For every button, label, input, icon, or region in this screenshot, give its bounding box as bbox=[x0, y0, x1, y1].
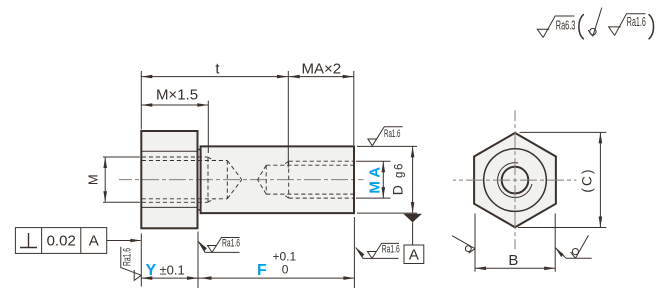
dimension M line bbox=[104, 157, 106, 202]
front view: pilot hole circle bbox=[502, 167, 529, 194]
svg-text:F: F bbox=[257, 262, 267, 279]
dimension M×1.5 line bbox=[141, 104, 208, 106]
top-right note: Ra6.3 symbol bbox=[537, 16, 574, 37]
surface symbol Ra1.6 leader at cylinder left face bbox=[198, 238, 239, 253]
svg-text:Ra1.6: Ra1.6 bbox=[627, 14, 646, 29]
dimension (C) line bbox=[599, 132, 601, 227]
pilot hole M end vertical hidden line bbox=[226, 161, 228, 199]
perpendicularity symbol bbox=[20, 233, 37, 248]
surface symbol Ra1.6 above cylinder right bbox=[368, 127, 403, 146]
hidden thread MA major diameter lines bbox=[289, 160, 354, 162]
bottom extension line: hex left face bbox=[140, 234, 142, 287]
surface symbol Ra1.6 rotated at hex left face bottom bbox=[121, 247, 141, 281]
top-right note: circle-check symbol bbox=[588, 8, 602, 37]
svg-text:A: A bbox=[89, 233, 99, 250]
dimension Y line bbox=[141, 277, 198, 279]
pilot hole MA end vertical hidden line bbox=[265, 165, 267, 194]
text: ) top note bbox=[649, 14, 654, 39]
svg-text:MA: MA bbox=[367, 163, 384, 193]
hidden thread MA minor diameter lines bbox=[266, 164, 354, 166]
svg-text:MA×2: MA×2 bbox=[301, 61, 341, 78]
hidden thread M major diameter lines bbox=[142, 157, 354, 202]
drill cone MA bbox=[258, 165, 267, 179]
svg-text:0.02: 0.02 bbox=[47, 233, 76, 250]
surface symbol Ra1.6 leader at right face bottom bbox=[356, 243, 399, 258]
extension lines: (C) bbox=[518, 132, 606, 227]
side view: cylinder body fill bbox=[201, 146, 354, 213]
svg-text:Ra6.3: Ra6.3 bbox=[556, 17, 576, 32]
bottom extension line: hex right face bbox=[197, 232, 199, 289]
svg-text:Ra1.6: Ra1.6 bbox=[222, 237, 240, 249]
dimension D line bbox=[412, 146, 414, 213]
FCF leader arrow bbox=[107, 240, 141, 242]
top-right note: Ra1.6 symbol bbox=[609, 14, 646, 36]
feature control frame (perpendicularity) bbox=[15, 228, 106, 254]
extension line: right face (top) bbox=[353, 71, 355, 145]
svg-text:B: B bbox=[508, 252, 518, 269]
thread M runout slants bbox=[207, 157, 214, 161]
dimension F line bbox=[198, 277, 354, 279]
front view: vertical centerline bbox=[514, 110, 516, 249]
front view: horizontal centerline bbox=[453, 179, 577, 181]
neck step edges bbox=[198, 150, 201, 210]
svg-text:(C): (C) bbox=[579, 167, 594, 192]
extension line: thread MA depth bbox=[287, 71, 289, 168]
front view: chamfer circle bbox=[484, 149, 547, 212]
side view: neck fill bbox=[198, 150, 201, 210]
thread MA end vertical hidden line bbox=[288, 162, 290, 198]
svg-text:Ra1.6: Ra1.6 bbox=[121, 248, 133, 266]
dimension MA×2 line bbox=[289, 76, 354, 78]
svg-text:Ra1.6: Ra1.6 bbox=[382, 243, 400, 255]
front view: thread major 3/4 arc bbox=[498, 163, 532, 198]
surface symbol circle-check with leader at hexagon lower-right bbox=[555, 235, 592, 258]
extension line: thread M depth bbox=[207, 101, 209, 154]
hex face edge lines (side view) bbox=[141, 150, 197, 152]
extension lines: D dia (right) bbox=[357, 146, 417, 213]
svg-text:M: M bbox=[86, 174, 101, 185]
svg-text:A: A bbox=[409, 247, 419, 264]
dimension B line bbox=[475, 267, 555, 269]
thread M end vertical hidden line bbox=[207, 158, 209, 203]
svg-text:±0.1: ±0.1 bbox=[160, 262, 185, 277]
hex head outline (side view) bbox=[141, 131, 197, 228]
svg-text:Y: Y bbox=[146, 262, 157, 279]
extension lines: MA thread dia (right) bbox=[356, 161, 391, 198]
svg-text:Ra1.6: Ra1.6 bbox=[384, 128, 401, 140]
datum A feature triangle bbox=[403, 214, 422, 223]
datum A box bbox=[404, 245, 424, 264]
bottom extension line: cylinder right face bbox=[353, 217, 355, 288]
dimension t line bbox=[141, 76, 288, 78]
svg-text:0: 0 bbox=[282, 263, 289, 277]
front view: hexagon bbox=[474, 133, 556, 227]
svg-text:M×1.5: M×1.5 bbox=[156, 87, 198, 104]
cylinder outline (side view) bbox=[201, 146, 354, 213]
hidden thread M minor diameter lines bbox=[142, 160, 228, 162]
side view: hex head body fill bbox=[141, 131, 197, 228]
drill cone M bbox=[227, 161, 242, 180]
extension lines: M thread dia (left) bbox=[103, 157, 140, 202]
centerline: main axis bbox=[119, 179, 364, 181]
thread MA runout slants bbox=[283, 161, 289, 165]
dimension MA line bbox=[382, 161, 384, 198]
extension line: hex left face (top) bbox=[140, 71, 142, 130]
extension lines: B bbox=[475, 214, 555, 272]
text: ( top note bbox=[579, 14, 584, 39]
svg-text:+0.1: +0.1 bbox=[273, 249, 297, 263]
surface symbol circle-check at hexagon lower-left bbox=[452, 236, 475, 254]
